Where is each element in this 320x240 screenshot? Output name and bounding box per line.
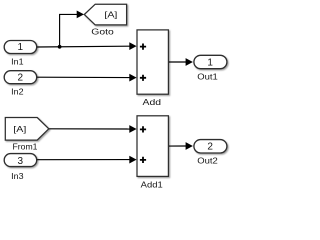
outport Out2 — [194, 140, 227, 166]
sum block Add — [137, 30, 168, 107]
svg-text:[A]: [A] — [13, 124, 26, 134]
wire branch junction to Goto — [60, 11, 84, 47]
wire From1 to Add1 input 1 — [49, 125, 137, 133]
from block From1 tag [A] — [5, 118, 49, 152]
junction dot on In1 wire — [58, 45, 62, 49]
wire In3 to Add1 input 2 — [37, 156, 137, 164]
svg-text:From1: From1 — [13, 142, 38, 152]
svg-text:1: 1 — [207, 58, 213, 69]
svg-text:Out1: Out1 — [197, 72, 218, 82]
wire In1 to Add input 1 — [37, 42, 137, 50]
svg-text:In2: In2 — [11, 87, 24, 97]
svg-text:2: 2 — [18, 73, 24, 84]
svg-text:Add: Add — [143, 97, 162, 107]
svg-text:In1: In1 — [11, 56, 24, 66]
svg-text:Goto: Goto — [91, 27, 114, 37]
wire In2 to Add input 2 — [37, 74, 137, 82]
inport In2 — [4, 71, 37, 97]
svg-text:Out2: Out2 — [197, 156, 218, 166]
wire Add output to Out1 — [168, 58, 193, 66]
svg-text:3: 3 — [18, 156, 24, 167]
svg-text:In3: In3 — [11, 171, 24, 181]
svg-text:Add1: Add1 — [141, 180, 163, 190]
outport Out1 — [194, 55, 227, 81]
inport In1 — [4, 41, 37, 67]
inport In3 — [4, 154, 37, 181]
svg-text:[A]: [A] — [104, 9, 117, 19]
sum block Add1 — [137, 116, 168, 190]
svg-text:2: 2 — [207, 142, 213, 153]
goto block Goto tag [A] — [84, 4, 126, 37]
svg-text:1: 1 — [18, 42, 24, 53]
wire Add1 output to Out2 — [168, 142, 193, 150]
